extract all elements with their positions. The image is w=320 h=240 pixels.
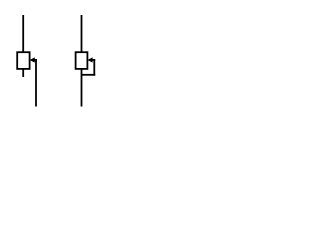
wire: R1 top lead: [22, 15, 24, 53]
wire: R2 top lead: [81, 15, 83, 53]
wiper arrow R2: [87, 57, 92, 62]
resistor body R2: [76, 52, 88, 69]
wire: R2 wiper to bottom lead: [82, 74, 96, 76]
resistor body R1: [17, 52, 29, 69]
potentiometer R1: [17, 15, 37, 107]
potentiometer R2 (rheostat connection): [76, 15, 96, 107]
wire: R1 bottom stub: [22, 69, 24, 77]
wiper arrow R1: [30, 57, 35, 62]
wire: R2 wiper lead horizontal: [92, 59, 96, 61]
wire: R2 bottom lead: [81, 69, 83, 107]
wire: R2 wiper lead vertical: [93, 59, 95, 76]
wire: R1 wiper lead horizontal: [34, 59, 37, 61]
wire: R1 wiper lead vertical: [35, 59, 37, 106]
